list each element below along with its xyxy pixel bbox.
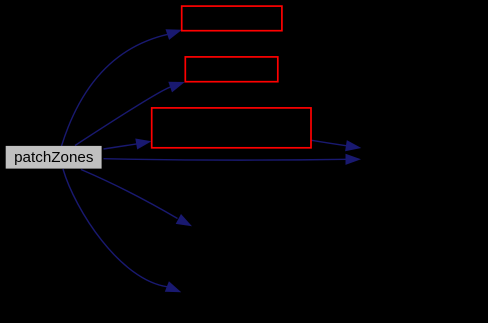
arrowhead edge right node lower [346, 154, 362, 165]
edge node3 to right node [312, 140, 348, 146]
arrowhead edge node3 [135, 139, 151, 150]
edge patchZones to right node (long horizontal) [104, 159, 346, 160]
node2 red box (middle) [185, 57, 277, 82]
node3 red box (large) [152, 108, 311, 148]
edge patchZones to node1 (top red box) [62, 34, 169, 146]
edge patchZones to node3 (large red box) [104, 144, 138, 149]
arrowhead edge lower-middle node [176, 214, 192, 226]
edge patchZones to node2 (second red box) [75, 87, 171, 146]
arrowhead edge right node upper [345, 140, 361, 151]
edge patchZones to lower-middle node [81, 170, 178, 219]
edge patchZones to bottom node [63, 169, 168, 287]
node patchZones box [6, 146, 102, 169]
arrowhead edge bottom node [165, 281, 182, 292]
svg-text:patchZones: patchZones [14, 149, 94, 166]
node patchZones label [14, 149, 94, 166]
node1 red box (top) [182, 6, 282, 31]
arrowhead edge node1 [166, 29, 183, 40]
arrowhead edge node2 [168, 82, 185, 93]
